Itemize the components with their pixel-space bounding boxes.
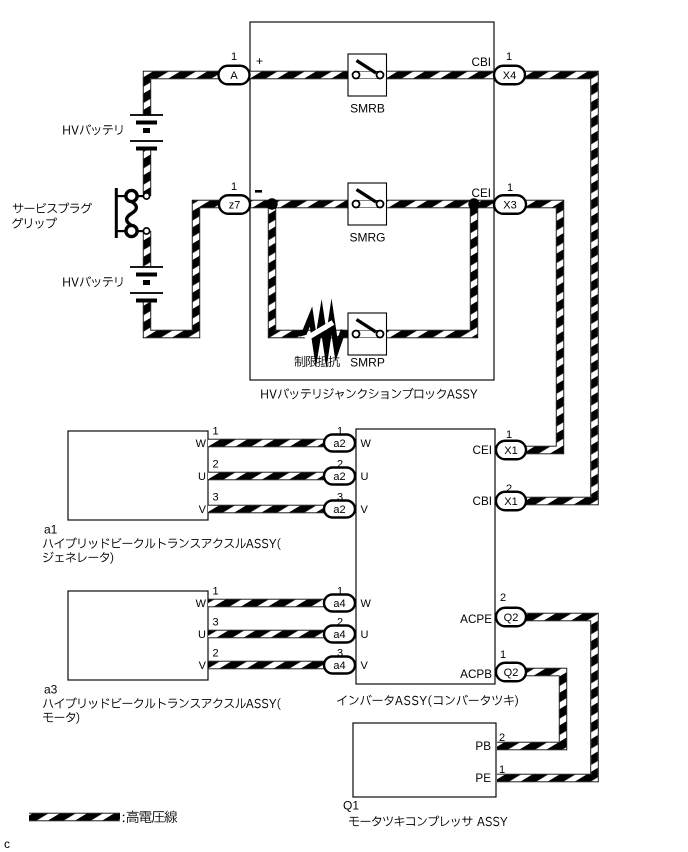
connector X1 pin2 CBI — [496, 492, 526, 511]
connector a2 U — [324, 468, 355, 485]
relay SMRP box — [348, 313, 387, 355]
connector X1 pin1 CEI — [496, 441, 526, 460]
svg-text:c: c — [4, 837, 10, 851]
label 高電圧線 legend — [123, 811, 177, 824]
wire battery1 bottom to service plug — [143, 148, 151, 196]
wire motor W to a4 — [208, 599, 340, 607]
label HVバッテリジャンクションブロックASSY — [261, 388, 477, 400]
svg-text:3: 3 — [213, 617, 219, 629]
service plug link bottom — [137, 230, 143, 232]
svg-text:1: 1 — [231, 181, 237, 193]
svg-text:ACPE: ACPE — [460, 613, 492, 626]
svg-text:3: 3 — [337, 492, 343, 504]
service plug stub bottom — [117, 230, 126, 232]
connector a4 W — [324, 595, 355, 612]
svg-text:a2: a2 — [333, 504, 345, 516]
svg-text:1: 1 — [506, 429, 512, 441]
svg-text:2: 2 — [499, 732, 505, 744]
service plug S link — [127, 202, 137, 226]
svg-text:V: V — [361, 660, 369, 672]
wire battery1 top to connector A to SMRB — [147, 75, 356, 115]
connector a4 U — [324, 626, 355, 643]
relay SMRB contact right — [377, 72, 384, 79]
junction node right of SMRG branch — [468, 198, 479, 209]
label ハイブリッドビークルトランスアクスルASSY( gen — [43, 537, 281, 550]
svg-text:a4: a4 — [333, 660, 345, 672]
wire SMRP to right branch — [380, 204, 474, 334]
relay SMRP contact left — [353, 331, 360, 338]
svg-text:U: U — [198, 629, 206, 641]
wire z7 to SMRG — [248, 200, 356, 208]
relay SMRG contact left — [353, 201, 360, 208]
wire motor U to a4 — [208, 630, 340, 638]
svg-text:U: U — [361, 629, 369, 641]
svg-text:X3: X3 — [503, 200, 516, 212]
connector a2 V — [324, 501, 355, 518]
svg-text:2: 2 — [337, 459, 343, 471]
svg-text:V: V — [361, 504, 369, 516]
HV battery 1 plate long bottom — [130, 140, 163, 142]
wire ACPB Q2 to compressor PB — [497, 672, 563, 746]
resistor 制限抵抗 zigzag — [299, 317, 348, 351]
HV battery 2 plate long bottom — [130, 292, 163, 294]
connector Q2 pin2 ACPE — [496, 608, 526, 627]
connector Q2 pin1 ACPB — [496, 663, 526, 682]
relay SMRB blade — [357, 61, 377, 74]
relay SMRP open gap outline — [353, 330, 383, 338]
svg-text:X1: X1 — [504, 445, 517, 457]
svg-text:ACPB: ACPB — [460, 668, 492, 681]
svg-text:W: W — [361, 598, 372, 610]
svg-text:V: V — [199, 660, 207, 672]
svg-text:+: + — [256, 54, 263, 68]
svg-text:X4: X4 — [503, 70, 516, 82]
inverter box — [356, 429, 495, 684]
label ジェネレータ) — [43, 552, 113, 564]
svg-text:CBI: CBI — [473, 495, 492, 508]
relay SMRB box — [348, 54, 387, 96]
wire precharge branch left — [272, 204, 356, 334]
wire generator W to a2 — [208, 439, 340, 447]
svg-text:PB: PB — [475, 740, 491, 753]
label HVバッテリ lower — [63, 276, 122, 287]
service plug pivot bottom — [126, 225, 137, 236]
label モータ) — [43, 712, 79, 724]
compressor box Q1 — [353, 723, 496, 797]
svg-text:1: 1 — [506, 51, 512, 63]
svg-text:CBI: CBI — [472, 56, 491, 69]
svg-text:W: W — [361, 438, 372, 450]
svg-text:2: 2 — [337, 617, 343, 629]
svg-text:Q2: Q2 — [504, 612, 519, 624]
svg-text:z7: z7 — [229, 200, 241, 212]
svg-text:1: 1 — [231, 51, 237, 63]
wire generator V to a2 — [208, 505, 340, 513]
svg-text:W: W — [196, 438, 207, 450]
wire motor V to a4 — [208, 661, 340, 669]
legend high-voltage wire sample — [29, 813, 120, 821]
svg-text:a4: a4 — [333, 598, 345, 610]
connector a2 W — [324, 435, 355, 452]
svg-text:a2: a2 — [333, 471, 345, 483]
svg-text:CEI: CEI — [473, 444, 492, 457]
svg-text:1: 1 — [500, 649, 506, 661]
HV battery 1 cell dots — [143, 128, 150, 133]
label ハイブリッドビークルトランスアクスルASSY( mot — [43, 697, 281, 710]
svg-text:W: W — [196, 598, 207, 610]
HV battery 2 plate short top — [136, 273, 157, 277]
svg-text:2: 2 — [506, 483, 512, 495]
HV battery 2 cell dots — [143, 280, 150, 285]
service plug grip bar — [115, 188, 118, 238]
svg-text:V: V — [199, 504, 207, 516]
connector z7 — [219, 195, 250, 214]
relay SMRG open gap outline — [353, 200, 383, 208]
generator box a1 — [68, 431, 208, 520]
svg-text:2: 2 — [213, 648, 219, 660]
relay SMRB open gap outline — [353, 71, 383, 79]
connector A — [219, 66, 250, 85]
service plug terminal top — [143, 193, 149, 199]
svg-text:Q2: Q2 — [504, 667, 519, 679]
wire service plug to battery2 top — [143, 231, 151, 267]
connector X3 pin1 — [494, 195, 526, 214]
connector a4 V — [324, 657, 355, 674]
svg-text:SMRB: SMRB — [350, 102, 385, 116]
label 制限抵抗 — [295, 356, 340, 367]
label モータツキコンプレッサ ASSY — [349, 816, 507, 827]
svg-text:1: 1 — [213, 426, 219, 438]
service plug terminal bottom — [143, 228, 149, 234]
svg-text:a1: a1 — [44, 523, 58, 537]
wire SMRG to CEI X3 to CEI X1 — [380, 204, 560, 450]
svg-text:1: 1 — [213, 586, 219, 598]
HV battery 1 plate short bottom — [136, 147, 157, 151]
HV battery 2 plate short bottom — [136, 299, 157, 303]
svg-text:PE: PE — [475, 772, 491, 785]
svg-text:CEI: CEI — [472, 187, 491, 200]
motor box a3 — [68, 591, 208, 680]
relay SMRG blade — [357, 190, 377, 203]
label グリップ line2 — [12, 218, 57, 229]
wire generator U to a2 — [208, 472, 340, 480]
relay SMRG box — [348, 183, 387, 225]
service plug stub top — [117, 195, 126, 197]
wire z7 left loop to battery2 bottom — [147, 204, 222, 334]
junction node left of SMRG branch — [266, 198, 277, 209]
svg-text:a4: a4 — [333, 629, 345, 641]
svg-text:A: A — [230, 70, 238, 82]
HV battery junction block box — [250, 22, 494, 380]
label インバータASSY(コンバータツキ) — [337, 695, 518, 707]
relay SMRG contact right — [377, 201, 384, 208]
svg-text:X1: X1 — [504, 496, 517, 508]
svg-text:1: 1 — [337, 426, 343, 438]
svg-text:Q1: Q1 — [343, 799, 359, 813]
svg-text:2: 2 — [213, 459, 219, 471]
wire SMRB to CBI X4 down right side to CBI X1 — [380, 75, 595, 501]
svg-text:U: U — [198, 471, 206, 483]
connector X4 pin1 — [494, 66, 525, 85]
service plug link top — [137, 195, 143, 197]
wire ACPE Q2 to compressor PE — [497, 617, 595, 778]
HV battery 2 plate long top — [130, 266, 163, 268]
svg-text:3: 3 — [213, 492, 219, 504]
svg-text:SMRG: SMRG — [350, 231, 386, 245]
svg-text:1: 1 — [499, 764, 505, 776]
svg-text:1: 1 — [507, 182, 513, 194]
svg-text:SMRP: SMRP — [350, 356, 385, 370]
svg-text:a3: a3 — [44, 683, 58, 697]
label HVバッテリ upper — [63, 124, 122, 135]
label サービスプラグ line1 — [13, 203, 92, 214]
svg-text:U: U — [361, 471, 369, 483]
polarity − at z7 — [255, 190, 262, 193]
svg-text:1: 1 — [337, 586, 343, 598]
service plug pivot top — [126, 190, 137, 201]
relay SMRB contact left — [353, 72, 360, 79]
relay SMRP blade — [357, 320, 377, 333]
HV battery 1 plate long top — [130, 114, 163, 116]
svg-text:3: 3 — [337, 648, 343, 660]
svg-text:2: 2 — [500, 592, 506, 604]
relay SMRP contact right — [377, 331, 384, 338]
HV battery 1 plate short top — [136, 121, 157, 125]
svg-text:a2: a2 — [333, 438, 345, 450]
